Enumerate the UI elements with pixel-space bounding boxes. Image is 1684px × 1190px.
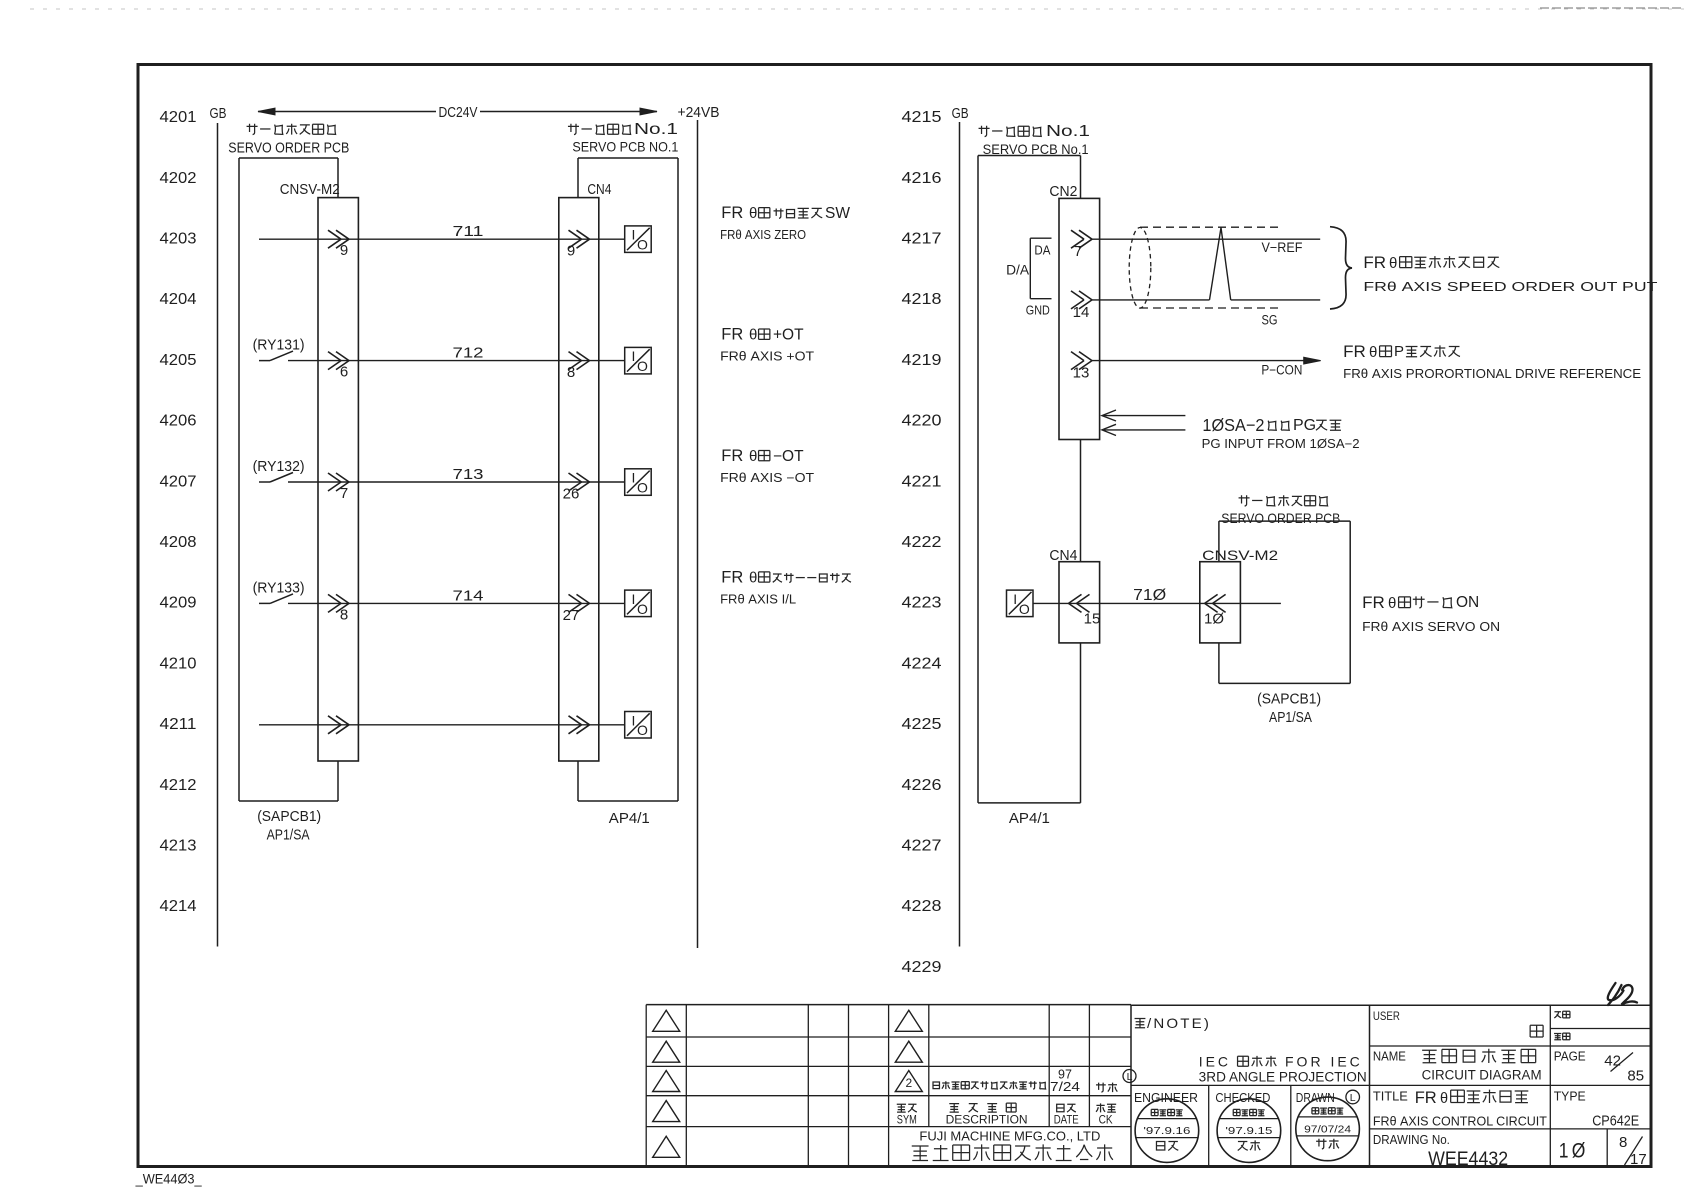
+24VB rail (left)	[697, 120, 699, 948]
chevron into CNSV-M2 row 4209	[328, 594, 341, 603]
svg-text:O: O	[637, 480, 648, 496]
svg-text:V−REF: V−REF	[1262, 240, 1303, 255]
svg-text:4216: 4216	[902, 170, 942, 187]
svg-text:DATE: DATE	[1054, 1113, 1079, 1127]
header SYM cell (jp+en)	[897, 1104, 906, 1112]
wire P-CON row 4219	[1092, 360, 1313, 362]
D/A converter bracket	[1029, 238, 1031, 299]
svg-text:4229: 4229	[902, 959, 942, 976]
svg-text:2: 2	[905, 1076, 912, 1090]
svg-text:I: I	[631, 712, 635, 728]
svg-text:9: 9	[567, 243, 575, 260]
stamp checked	[1217, 1099, 1281, 1163]
svg-text:4203: 4203	[160, 231, 197, 248]
svg-text:NAME: NAME	[1373, 1049, 1406, 1063]
svg-text:26: 26	[563, 486, 580, 503]
chevron into CNSV-M2 row 4203	[328, 230, 341, 239]
wire DC24V span arrow	[258, 111, 436, 113]
chevron into CN4 row 4203	[569, 230, 582, 239]
svg-text:4202: 4202	[160, 170, 197, 187]
svg-text:SG: SG	[1262, 313, 1278, 328]
chevron into CNSV-M2 row 4211	[328, 716, 341, 725]
svg-text:CP642E: CP642E	[1592, 1113, 1639, 1130]
I/O symbol row 4207	[625, 469, 652, 496]
svg-text:θ: θ	[1440, 1091, 1448, 1107]
svg-text:P−CON: P−CON	[1261, 363, 1302, 378]
revision row 3 description (jp)	[933, 1082, 939, 1089]
stamp drawn	[1296, 1097, 1360, 1161]
chevron into CN4 row 4211	[569, 716, 582, 725]
svg-text:(SAPCB1): (SAPCB1)	[257, 809, 321, 825]
svg-text:FRθ AXIS CONTROL CIRCUIT: FRθ AXIS CONTROL CIRCUIT	[1373, 1115, 1547, 1129]
brace speed order output	[1330, 227, 1352, 309]
svg-text:4219: 4219	[902, 352, 942, 369]
PCB box SAPCB1 (right half)	[1219, 520, 1350, 522]
svg-text:DESCRIPTION: DESCRIPTION	[946, 1113, 1028, 1127]
revision table (left)	[646, 1004, 888, 1006]
label servo pcb no.1 (jp) right-half	[979, 126, 990, 137]
svg-text:DRAWING No.: DRAWING No.	[1373, 1133, 1450, 1147]
svg-text:CK: CK	[1099, 1113, 1113, 1127]
svg-text:θ: θ	[1389, 255, 1397, 272]
chevron into CN4 row 4209	[569, 594, 582, 603]
PCB box AP4/1 (right half)	[978, 155, 1081, 157]
svg-text:I: I	[631, 227, 635, 243]
svg-text:I: I	[631, 591, 635, 607]
svg-text:FRθ AXIS SERVO ON: FRθ AXIS SERVO ON	[1362, 620, 1500, 634]
GB rail (right)	[959, 122, 961, 947]
svg-text:6: 6	[340, 364, 348, 381]
svg-text:713: 713	[453, 466, 484, 483]
revision triangles (middle table)	[895, 1010, 922, 1031]
svg-text:(RY131): (RY131)	[253, 337, 305, 354]
svg-text:AP4/1: AP4/1	[609, 811, 650, 827]
svg-text:(SAPCB1): (SAPCB1)	[1257, 692, 1321, 708]
svg-text:7/24: 7/24	[1050, 1080, 1080, 1094]
svg-text:No.1: No.1	[1046, 123, 1090, 140]
svg-text:FR: FR	[721, 326, 743, 344]
svg-text:θ: θ	[749, 448, 757, 465]
svg-text:θ: θ	[749, 205, 757, 222]
svg-text:O: O	[637, 722, 648, 738]
label dono (jp)	[1530, 1025, 1543, 1037]
svg-text:27: 27	[563, 607, 580, 624]
svg-text:4204: 4204	[160, 291, 197, 308]
svg-text:4209: 4209	[160, 595, 197, 612]
circled L drawn	[1346, 1090, 1360, 1104]
revision triangle 2	[895, 1071, 922, 1092]
label servo pcb no.1 (jp) left-half	[568, 124, 579, 135]
label servo order pcb (jp) left	[247, 124, 258, 135]
svg-text:θ: θ	[749, 327, 757, 344]
GB rail (left)	[217, 123, 219, 947]
I/O symbol row 4211	[625, 712, 652, 739]
svg-text:CHECKED: CHECKED	[1215, 1090, 1270, 1105]
scan artifact line (decorative)	[30, 8, 1684, 10]
svg-text:714: 714	[453, 587, 484, 604]
svg-text:PG: PG	[1293, 417, 1316, 434]
company name jp	[912, 1146, 929, 1160]
PCB box AP1/SA (left)	[239, 157, 338, 159]
svg-text:ON: ON	[1456, 594, 1479, 611]
svg-text:4211: 4211	[160, 716, 197, 733]
title info column gridlines	[1370, 1045, 1652, 1047]
svg-text:SERVO PCB NO.1: SERVO PCB NO.1	[572, 139, 678, 155]
svg-text:FR: FR	[1363, 253, 1386, 272]
svg-text:4225: 4225	[902, 716, 942, 733]
wire V-REF row 4217	[1092, 238, 1320, 240]
svg-text:FRθ AXIS +OT: FRθ AXIS +OT	[720, 350, 814, 364]
svg-text:AP4/1: AP4/1	[1009, 811, 1050, 827]
svg-text:FRθ AXIS I/L: FRθ AXIS I/L	[720, 592, 796, 606]
svg-text:711: 711	[453, 223, 484, 240]
svg-text:θ: θ	[1369, 344, 1377, 361]
revision table (middle)	[889, 1004, 1131, 1006]
svg-text:4223: 4223	[902, 595, 942, 612]
svg-text:−OT: −OT	[773, 448, 804, 465]
svg-text:3RD ANGLE PROJECTION: 3RD ANGLE PROJECTION	[1199, 1070, 1367, 1085]
approval stamps header row	[1208, 1085, 1210, 1167]
svg-text:O: O	[1019, 601, 1030, 617]
svg-text:8: 8	[567, 364, 575, 381]
header DATE cell	[1057, 1104, 1064, 1112]
svg-text:4220: 4220	[902, 413, 942, 430]
svg-text:GB: GB	[952, 106, 969, 122]
svg-text:PAGE: PAGE	[1554, 1049, 1586, 1063]
svg-text:No.1: No.1	[634, 121, 678, 138]
svg-text:FOR IEC: FOR IEC	[1285, 1054, 1363, 1070]
twisted pair symbol	[1210, 228, 1231, 300]
svg-text:4217: 4217	[902, 231, 942, 248]
wire row 4209	[288, 602, 625, 604]
svg-text:4214: 4214	[160, 898, 197, 915]
svg-text:13: 13	[1073, 365, 1090, 382]
svg-text:FR: FR	[721, 447, 743, 465]
svg-text:θ: θ	[749, 569, 757, 586]
svg-text:I: I	[631, 348, 635, 364]
svg-text:DA: DA	[1034, 243, 1050, 258]
svg-text:(RY132): (RY132)	[253, 458, 305, 475]
svg-text:P: P	[1394, 343, 1404, 360]
svg-text:I: I	[631, 470, 635, 486]
svg-text:O: O	[637, 601, 648, 617]
wire row 4205	[288, 360, 625, 362]
label circuit diagram (jp)	[1422, 1050, 1437, 1063]
svg-text:D/A: D/A	[1006, 263, 1029, 278]
svg-text:4224: 4224	[902, 655, 942, 672]
I/O symbol row 4223	[1007, 590, 1034, 617]
svg-text:CN4: CN4	[587, 182, 611, 198]
wire row 4211	[259, 724, 625, 726]
svg-text:ENGINEER: ENGINEER	[1134, 1090, 1198, 1105]
svg-text:17: 17	[1630, 1151, 1647, 1168]
svg-text:+OT: +OT	[773, 327, 804, 344]
svg-text:TYPE: TYPE	[1554, 1090, 1586, 1104]
label seiban (jp)	[1554, 1034, 1561, 1040]
svg-text:SERVO ORDER PCB: SERVO ORDER PCB	[1221, 510, 1340, 526]
svg-text:1ØSA−2: 1ØSA−2	[1202, 415, 1264, 435]
svg-text:14: 14	[1073, 304, 1090, 321]
chevron CN2 pin 14	[1071, 291, 1084, 300]
chevron into CN4 row 4207	[569, 473, 582, 482]
svg-text:9: 9	[340, 242, 348, 259]
chevron CN2 pin 13	[1071, 352, 1084, 361]
svg-text:/NOTE): /NOTE)	[1147, 1015, 1211, 1031]
svg-text:(RY133): (RY133)	[253, 579, 305, 596]
svg-text:FRθ AXIS −OT: FRθ AXIS −OT	[720, 471, 814, 485]
svg-text:15: 15	[1084, 610, 1101, 627]
svg-text:1Ø: 1Ø	[1204, 610, 1224, 627]
label NOTE (jp)	[1135, 1018, 1146, 1027]
PG input arrows	[1104, 415, 1185, 417]
svg-text:7: 7	[340, 485, 348, 502]
svg-text:SW: SW	[825, 205, 850, 222]
svg-text:O: O	[637, 237, 648, 253]
svg-text:FR: FR	[721, 204, 743, 222]
svg-text:FR: FR	[1343, 342, 1366, 361]
svg-text:4218: 4218	[902, 291, 942, 308]
wire row 4203	[259, 238, 625, 240]
svg-text:1Ø: 1Ø	[1559, 1139, 1589, 1162]
svg-text:4221: 4221	[902, 473, 942, 490]
svg-text:42: 42	[1604, 1053, 1621, 1070]
chevron CNSV-M2 pin 10	[1213, 594, 1226, 603]
I/O symbol row 4209	[625, 590, 652, 617]
svg-text:θ: θ	[1388, 595, 1396, 612]
handwritten page number 42	[1608, 983, 1624, 1005]
svg-text:SERVO ORDER PCB: SERVO ORDER PCB	[228, 141, 349, 157]
chevron into CN4 row 4205	[569, 352, 582, 361]
header DESCRIPTION cell	[949, 1104, 959, 1112]
svg-text:4206: 4206	[160, 413, 197, 430]
chevron into CNSV-M2 row 4205	[328, 352, 341, 361]
svg-text:_WE44Ø3_: _WE44Ø3_	[135, 1171, 202, 1187]
chevron CN4 pin 15	[1077, 594, 1090, 603]
svg-text:FR: FR	[721, 568, 743, 586]
svg-text:USER: USER	[1373, 1011, 1400, 1023]
svg-text:FRθ AXIS PRORORTIONAL DRIVE RE: FRθ AXIS PRORORTIONAL DRIVE REFERENCE	[1343, 367, 1641, 381]
svg-text:4212: 4212	[160, 777, 197, 794]
svg-text:PG INPUT FROM 1ØSA−2: PG INPUT FROM 1ØSA−2	[1202, 437, 1360, 451]
svg-text:FR: FR	[1362, 593, 1385, 612]
shield dashed outline	[1140, 226, 1281, 228]
svg-text:GND: GND	[1026, 303, 1050, 318]
note box	[1131, 1004, 1651, 1006]
svg-text:I: I	[1013, 591, 1017, 607]
svg-text:4207: 4207	[160, 473, 197, 490]
svg-text:7: 7	[1074, 243, 1082, 260]
wire row 4207	[288, 481, 625, 483]
svg-text:WEE4432: WEE4432	[1428, 1148, 1508, 1170]
svg-text:TITLE: TITLE	[1373, 1090, 1408, 1104]
svg-text:CNSV-M2: CNSV-M2	[280, 182, 340, 198]
svg-text:+24VB: +24VB	[678, 105, 720, 121]
svg-text:4201: 4201	[160, 109, 197, 126]
svg-text:4208: 4208	[160, 534, 197, 551]
svg-text:DC24V: DC24V	[439, 105, 478, 121]
chevron CN2 pin 7	[1071, 230, 1084, 239]
svg-text:97/07/24: 97/07/24	[1304, 1123, 1351, 1135]
circled L row 3	[1123, 1070, 1136, 1083]
revision row 3 person	[1096, 1083, 1106, 1093]
svg-text:CNSV-M2: CNSV-M2	[1202, 547, 1278, 563]
svg-text:L: L	[1350, 1092, 1356, 1104]
chevron into CNSV-M2 row 4207	[328, 473, 341, 482]
svg-text:SERVO PCB No.1: SERVO PCB No.1	[983, 141, 1089, 157]
svg-text:FUJI MACHINE MFG.CO., LTD: FUJI MACHINE MFG.CO., LTD	[919, 1129, 1100, 1144]
wire SG row 4218	[1092, 299, 1210, 301]
svg-text:71Ø: 71Ø	[1133, 587, 1166, 604]
svg-text:AP1/SA: AP1/SA	[1269, 710, 1312, 726]
svg-text:FRθ AXIS SPEED ORDER OUT PUT: FRθ AXIS SPEED ORDER OUT PUT	[1363, 280, 1657, 294]
wire 710 row 4223	[1033, 602, 1281, 604]
svg-text:4222: 4222	[902, 534, 942, 551]
svg-text:4210: 4210	[160, 655, 197, 672]
header CK cell	[1096, 1103, 1105, 1112]
I/O symbol row 4203	[625, 226, 652, 253]
svg-text:FRθ AXIS ZERO: FRθ AXIS ZERO	[720, 228, 806, 242]
svg-text:85: 85	[1627, 1068, 1644, 1085]
svg-text:4228: 4228	[902, 898, 942, 915]
svg-text:4227: 4227	[902, 838, 942, 855]
PCB box AP4/1 (left half)	[578, 157, 678, 159]
I/O symbol row 4205	[625, 347, 652, 374]
svg-text:FR: FR	[1415, 1089, 1437, 1107]
revision triangles (left table)	[653, 1010, 680, 1031]
svg-text:'97.9.16: '97.9.16	[1143, 1125, 1190, 1137]
svg-text:4226: 4226	[902, 777, 942, 794]
svg-text:GB: GB	[210, 106, 227, 122]
label servo order pcb (jp) right-half	[1239, 495, 1250, 506]
stamp engineer	[1135, 1099, 1199, 1163]
svg-text:CIRCUIT DIAGRAM: CIRCUIT DIAGRAM	[1422, 1067, 1542, 1082]
svg-text:4215: 4215	[902, 109, 942, 126]
svg-text:IEC: IEC	[1199, 1054, 1231, 1070]
svg-text:4205: 4205	[160, 352, 197, 369]
svg-text:8: 8	[1619, 1134, 1627, 1151]
svg-text:O: O	[637, 358, 648, 374]
svg-text:'97.9.15: '97.9.15	[1225, 1125, 1272, 1137]
svg-text:SYM: SYM	[897, 1113, 917, 1127]
svg-text:AP1/SA: AP1/SA	[267, 828, 310, 844]
svg-text:8: 8	[340, 606, 348, 623]
label bunban (jp)	[1554, 1012, 1561, 1018]
svg-text:712: 712	[453, 345, 484, 362]
svg-text:4213: 4213	[160, 838, 197, 855]
